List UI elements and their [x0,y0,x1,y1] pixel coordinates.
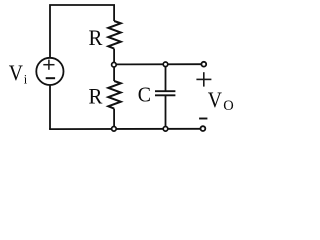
capacitor C1 bottom wire [165,95,167,129]
wire: top rail from source top to resistor branch [50,5,114,58]
wire: mid node to R2 top [113,66,115,81]
voltage source V1 circle [36,58,63,85]
minus polarity marker [199,118,207,120]
wire: bottom rail [49,128,203,130]
svg-text:C: C [138,83,151,107]
output terminal plus [201,62,206,67]
plus polarity marker [196,72,211,86]
svg-text:V: V [9,60,23,85]
output terminal minus [201,126,206,131]
node mid-left junction [112,62,117,67]
capacitor C1 plates [155,90,175,92]
svg-text:R: R [89,84,103,109]
voltage source minus marker [46,77,55,79]
svg-text:V: V [208,87,222,112]
node bottom-left junction [112,127,117,132]
node cap-bottom junction [163,127,168,132]
voltage source plus marker [43,60,54,70]
resistor R1 (top) zigzag [108,21,121,49]
wire: R1 bottom to mid node [113,49,115,63]
wire: R2 bottom to bottom rail [113,109,115,129]
svg-text:O: O [223,98,233,114]
svg-text:i: i [24,73,28,87]
resistor R2 (bottom) zigzag [108,81,121,109]
capacitor C1 top wire [165,64,167,91]
wire: source bottom to ground rail [49,86,51,130]
wire: mid horizontal to output [114,63,204,65]
node cap-top junction [163,62,168,67]
svg-text:R: R [89,25,103,50]
